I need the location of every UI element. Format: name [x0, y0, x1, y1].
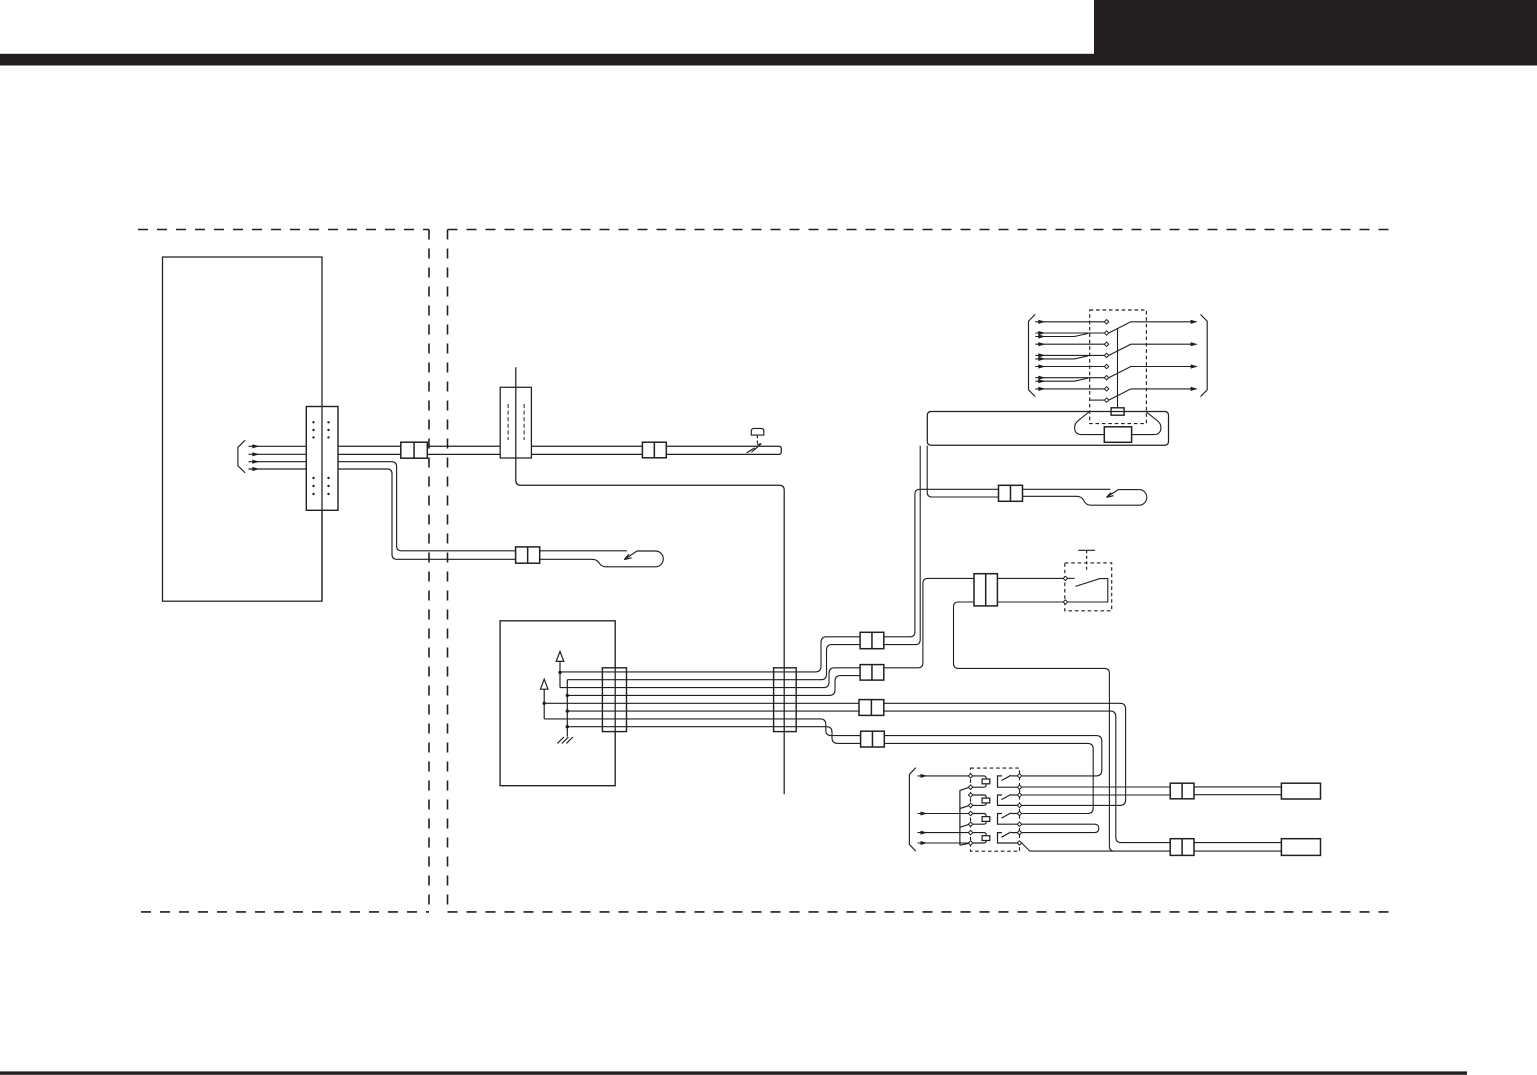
terminal T2 [1281, 839, 1320, 856]
trimmer cap symbol [751, 428, 764, 435]
S1 blade+output row4 [1109, 344, 1193, 355]
S1 input wire row4 [1035, 354, 1104, 356]
trimmer stem (dashed) [756, 435, 758, 446]
boundary main unit bottom edge [448, 911, 1398, 913]
arrow lead 1 [252, 444, 259, 448]
S1 input arrow row6 [1038, 376, 1045, 380]
relay K3 blade [1002, 813, 1012, 818]
relay K4 contact bar [998, 833, 1018, 843]
wire switch return (down across down) [954, 602, 1171, 851]
S1 companion arrow row6 [1038, 379, 1045, 383]
connector CN8 [860, 632, 884, 648]
relay output row8 diagonal [1022, 843, 1115, 851]
title block (top right) [1094, 0, 1537, 66]
connector CN3 (box-edge half A) [602, 668, 626, 732]
S1 companion arrow row4 [1038, 357, 1045, 361]
relay input wire [918, 842, 969, 844]
antenna base 1 [540, 551, 664, 567]
drive trough right [1132, 412, 1161, 434]
node dot line1 [558, 671, 561, 674]
S1 input wire row2 [1035, 332, 1104, 334]
bundle wire 2 [567, 645, 860, 680]
arrow lead 3 [252, 460, 259, 464]
S1 contact diamonds [1104, 320, 1108, 403]
S1 input companion row6 [1035, 378, 1088, 381]
wire harness lead 1 [249, 445, 307, 447]
fuse F3 loop [973, 814, 986, 825]
relay jumper U-loop [1022, 824, 1099, 832]
wire CN10 pair bottom to lower terminal [884, 711, 1170, 843]
boundary main unit top edge [448, 229, 1394, 231]
drive trough left [1075, 412, 1105, 435]
antenna mast arrow 2 [1107, 490, 1119, 498]
bundle wire 6 [567, 710, 859, 712]
wire CN11 pair bottom to relay K3 [884, 743, 1093, 813]
S2 dashed box [1065, 563, 1112, 611]
fuse F4 body [982, 836, 990, 841]
relay input arrow [921, 831, 928, 835]
wire CN9 to switch [884, 578, 974, 667]
S2 diamond bottom [1063, 600, 1067, 604]
relay K3 contact bar [998, 814, 1018, 825]
S1 output arrow row7 [1191, 387, 1198, 391]
S1 left brace [1029, 314, 1036, 396]
S1 input wire row1 [1035, 321, 1104, 323]
relay output row3 [1022, 794, 1170, 796]
main unit box [500, 621, 615, 786]
CN1 pin dots [312, 421, 329, 495]
arrow lead 4 [252, 467, 259, 471]
ground bus [566, 680, 568, 737]
relay block diamonds [968, 774, 1021, 846]
triangle 2 stem [543, 689, 545, 719]
relay link bar [960, 788, 969, 846]
connector CN6 [642, 442, 666, 458]
connector CN4 (harness side) [774, 668, 797, 732]
S1 output arrow row1 [1191, 320, 1198, 324]
S1 output arrow row3 [1191, 342, 1198, 346]
S1 input companion row4 [1035, 356, 1088, 359]
S1 blade+output row8 [1109, 389, 1193, 400]
feeder cable outline [338, 446, 781, 454]
boundary left unit bottom edge [141, 911, 429, 913]
CN2 pin row left [507, 404, 509, 440]
connector CN2 shell [500, 387, 531, 458]
S1 output arrow row5 [1191, 364, 1198, 368]
relay input arrow [921, 812, 928, 816]
plug symbol triangle 1 [556, 651, 564, 661]
relay input arrow [921, 841, 928, 845]
S1 input wire row3 [1035, 343, 1104, 345]
S1 input arrow row4 [1038, 353, 1045, 357]
connector CN13 [974, 574, 997, 606]
bundle wire 3 [560, 668, 860, 688]
S1 input arrow row5 [1038, 364, 1045, 368]
antenna lead 2 top [1023, 488, 1111, 490]
connector CN12 [999, 485, 1023, 501]
fuse F4 loop [973, 833, 986, 843]
S2 diamond top [1063, 576, 1067, 580]
relay block dashed box [971, 768, 1020, 851]
node dot bus-line6 [566, 709, 569, 712]
connector CN7 [516, 547, 540, 563]
S1 input companion row2 [1035, 333, 1088, 336]
wire harness lead 4 [249, 468, 307, 470]
wire CN14 to terminal [1194, 786, 1281, 788]
S1 drive coil [1111, 408, 1124, 415]
S1 input stub row8 [1090, 399, 1105, 401]
fuse F2 body [982, 798, 990, 803]
S2 wire in bottom [997, 601, 1063, 603]
S1 input wire row6 [1035, 377, 1104, 379]
fuse F2 loop [973, 795, 986, 805]
S1 input arrow row3 [1038, 342, 1045, 346]
wire control cable (CN2 down, across, down) [516, 367, 784, 794]
wire CN15 to terminal b [1194, 850, 1281, 852]
relay output row2 [1022, 786, 1170, 788]
S1 actuator link [1117, 328, 1119, 408]
S1 companion arrow row2 [1038, 334, 1045, 338]
antenna drive housing [927, 412, 1168, 446]
relay K1 blade [1002, 775, 1012, 780]
connector CN5 [401, 442, 428, 458]
wire CN8 to capsule pair (top) [884, 489, 999, 637]
CN2 divider [515, 387, 517, 458]
connector CN11 [861, 731, 885, 747]
wire CN10 pair top to relay K2 [884, 703, 1126, 805]
antenna base 2 [1023, 490, 1147, 506]
wire harness lead 3 [249, 461, 307, 463]
relay K1 output stub [1011, 775, 1017, 777]
S1 input arrow row2 [1038, 331, 1045, 335]
connector CN1 divider (box edge) [321, 407, 323, 511]
left unit box [163, 257, 323, 601]
S1 input wire row5 [1035, 366, 1104, 368]
relay input wire [918, 813, 969, 815]
S2 blade [1068, 579, 1108, 602]
plug symbol triangle 2 [540, 679, 548, 689]
connector CN14 [1170, 783, 1194, 799]
bundle wire 7 [544, 719, 860, 736]
bundle wire 4 [567, 676, 860, 696]
boundary left unit right edge [428, 230, 430, 912]
S1 input arrow row7 [1038, 387, 1045, 391]
boundary left unit top edge [138, 229, 429, 231]
connector CN15 [1170, 839, 1194, 856]
motor M1 [1104, 427, 1131, 443]
triangle 1 stem [559, 661, 561, 687]
fuse F3 body [982, 817, 990, 822]
relay K2 blade [1002, 794, 1012, 799]
wire lead4 to antenna connector [338, 469, 516, 559]
relay K2 contact bar [998, 795, 1018, 805]
relay block left brace [909, 768, 915, 851]
wire CN11 pair top to relay K1 [884, 736, 1102, 776]
chassis ground [557, 737, 573, 743]
relay K2 output stub [1011, 794, 1017, 796]
wire CN15 to terminal [1194, 842, 1281, 844]
connector CN9 [860, 665, 884, 681]
relay K4 output stub [1011, 832, 1017, 834]
relay input wire [918, 775, 969, 777]
arrow lead 2 [252, 452, 259, 456]
S2 wire in top [997, 577, 1063, 579]
S2 contact stub [1068, 577, 1075, 579]
bundle wire 8 [567, 727, 860, 744]
switch S1 dashed box [1090, 310, 1147, 424]
S1 input wire row7 [1035, 388, 1104, 390]
bundle wire 5 [544, 702, 859, 704]
footer rule [0, 1071, 1467, 1074]
wire harness lead 2 [249, 453, 307, 455]
brace harness left [238, 440, 245, 473]
relay K3 output stub [1011, 813, 1017, 815]
connector CN10 [859, 700, 884, 716]
S2 mast stem [1086, 550, 1088, 571]
S1 blade+output row6 [1109, 367, 1193, 378]
terminal T1 [1281, 783, 1320, 799]
fuse F1 body [982, 779, 990, 784]
relay K1 contact bar [998, 776, 1018, 787]
bundle wire 1 [560, 637, 860, 672]
boundary main unit left edge [447, 230, 449, 912]
left unit box right edge below CN1 [321, 510, 323, 601]
relay K4 blade [1002, 832, 1012, 837]
relay input wire [918, 832, 969, 834]
S2 mast tee [1078, 549, 1095, 551]
wire CN8 to handle [884, 446, 920, 645]
node dot bus-line8 [566, 725, 569, 728]
node dot line5 [543, 702, 546, 705]
antenna lead top [540, 550, 627, 552]
S1 right brace [1201, 314, 1208, 396]
wire lead3 to antenna connector [338, 462, 516, 551]
relay input arrow [921, 774, 928, 778]
trimmer slash [747, 444, 762, 453]
connector CN1 block shell [306, 407, 338, 511]
connector CN3 divider [614, 668, 616, 732]
wire handle to capsule pair (bottom) [927, 446, 998, 497]
wire CN14 to terminal b [1194, 794, 1281, 796]
header rule bar [0, 54, 1537, 66]
S1 blade+output row2 [1109, 322, 1193, 333]
node dot bus-line4 [566, 694, 569, 697]
CN2 pin row right [523, 404, 525, 440]
antenna mast arrow 1 [624, 551, 637, 560]
fuse F1 loop [973, 776, 986, 787]
S1 input arrow row1 [1038, 320, 1045, 324]
